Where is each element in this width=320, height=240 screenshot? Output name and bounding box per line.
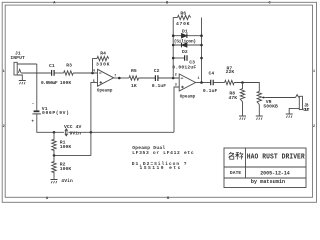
svg-text:500KB: 500KB	[263, 104, 278, 110]
node D2 left	[172, 44, 175, 47]
svg-text:by matsumin: by matsumin	[251, 179, 285, 185]
potentiometer VR (vertical)	[257, 91, 261, 115]
R6 top wire	[173, 17, 177, 19]
svg-text:1: 1	[198, 77, 200, 81]
jack J1 ring contact line	[17, 63, 37, 65]
svg-text:2: 2	[313, 125, 315, 129]
svg-text:1: 1	[313, 70, 315, 74]
ground (R8)	[239, 116, 246, 120]
resistor R5	[129, 76, 139, 80]
feedback loop wires op-amp1	[93, 59, 98, 73]
ground (VR)	[256, 116, 263, 120]
node (inverting input op-amp 2)	[172, 77, 175, 80]
svg-text:22K: 22K	[226, 69, 235, 75]
node C3 right	[200, 57, 203, 60]
op-amp U2 (pins 2,3,1)	[179, 74, 195, 91]
wire jack tip to C1	[21, 72, 51, 74]
node D2 right	[200, 44, 203, 47]
jack J1 sleeve wire to ground	[17, 75, 22, 80]
node (inverting input op-amp 1)	[91, 72, 94, 75]
jack J3 tip contact caret	[296, 95, 299, 98]
jack J3 sleeve wire to ground	[289, 108, 299, 113]
wire C1 to R3	[54, 72, 64, 74]
node (op-amp1 output / feedback)	[118, 77, 121, 80]
resistor R7	[225, 80, 235, 84]
power symbol 9V in	[65, 129, 67, 136]
node (rail / R1 top)	[53, 131, 56, 134]
svg-text:Opeamp: Opeamp	[180, 95, 196, 99]
feedback network right riser	[201, 18, 203, 83]
svg-text:R6: R6	[180, 11, 186, 17]
resistor R3	[64, 71, 74, 75]
node D1 right	[200, 34, 203, 37]
battery V1	[32, 111, 41, 114]
wire battery minus up (drawn with ring line above)	[36, 110, 38, 111]
svg-text:LF353 or LF412 etc: LF353 or LF412 etc	[132, 150, 194, 156]
svg-text:-: -	[32, 101, 35, 106]
node (R1/R2 midpoint)	[53, 154, 56, 157]
svg-text:C1: C1	[49, 63, 55, 69]
svg-text:100K: 100K	[60, 80, 72, 86]
wire R5 to C2	[139, 77, 155, 79]
svg-text:006P(9V): 006P(9V)	[42, 110, 69, 116]
svg-text:D2: D2	[182, 49, 188, 55]
svg-text:0.056uF: 0.056uF	[41, 80, 58, 86]
svg-text:2: 2	[3, 125, 5, 129]
wire op-amp1 output	[114, 77, 129, 79]
op-amp U1 (pins 6,5,7)	[98, 69, 114, 86]
jack J3 body	[299, 96, 302, 109]
svg-text:470K: 470K	[176, 21, 190, 27]
svg-text:OUT: OUT	[303, 107, 309, 113]
wire R3 to op-amp U1 inverting input	[73, 72, 97, 74]
svg-text:47K: 47K	[229, 95, 238, 101]
svg-text:C2: C2	[154, 68, 160, 74]
svg-text:0.1uF: 0.1uF	[152, 83, 167, 89]
node C3 left	[172, 57, 175, 60]
resistor R2 (vertical)	[52, 155, 56, 179]
svg-text:C4: C4	[209, 70, 215, 76]
jack J1 body	[14, 62, 17, 75]
resistor R4	[97, 56, 109, 60]
svg-text:4Vin: 4Vin	[61, 178, 73, 184]
jack J1 tip contact caret	[18, 69, 21, 73]
feedback network left riser	[172, 18, 174, 79]
svg-text:HAO RUST DRIVER: HAO RUST DRIVER	[247, 153, 306, 161]
wire C2 to op-amp2 inverting input	[158, 77, 179, 79]
capacitor C3	[185, 55, 187, 60]
wire C4 to R7	[213, 82, 224, 84]
VR wiper arrow	[262, 96, 266, 98]
svg-text:100K: 100K	[60, 144, 72, 150]
ground (J3)	[286, 114, 293, 118]
svg-text:1SS119 etc: 1SS119 etc	[140, 165, 181, 171]
resistor R1 (vertical)	[52, 132, 56, 155]
svg-text:R3: R3	[66, 63, 72, 69]
resistor R6	[178, 15, 191, 19]
svg-text:100K: 100K	[60, 166, 72, 172]
svg-text:2005-12-14: 2005-12-14	[260, 170, 290, 176]
wire VR wiper to jack J3	[266, 97, 296, 99]
D2 branch wire	[173, 44, 201, 46]
wire jack ring down to battery	[36, 64, 38, 110]
svg-text:D1: D1	[182, 29, 188, 35]
ground (J1 sleeve)	[19, 81, 26, 85]
svg-text:2: 2	[175, 74, 177, 78]
svg-text:0.0012uF: 0.0012uF	[172, 64, 196, 70]
capacitor C4	[211, 80, 214, 86]
svg-text:Opeamp: Opeamp	[97, 89, 113, 93]
wire R7 to VR branch	[234, 83, 259, 92]
D1 branch wire	[173, 35, 201, 37]
node (R7/R8/VR junction)	[241, 81, 244, 84]
diode D1	[182, 33, 187, 38]
svg-text:DATE: DATE	[230, 170, 242, 176]
diode D2	[182, 43, 187, 48]
inner border frame	[5, 5, 312, 197]
svg-text:+: +	[31, 120, 34, 125]
svg-text:6: 6	[93, 70, 95, 74]
node (op-amp2 output)	[200, 81, 203, 84]
node D1 left	[172, 34, 175, 37]
title block frame	[224, 148, 306, 188]
svg-text:INPUT: INPUT	[10, 55, 25, 61]
svg-text:0.1uF: 0.1uF	[203, 88, 218, 94]
svg-text:330K: 330K	[96, 62, 110, 68]
ground (R2)	[51, 180, 58, 184]
svg-text:1K: 1K	[131, 83, 137, 89]
op-amp2 non-inverting stub to bias rail	[174, 87, 179, 132]
svg-text:VCC 4V: VCC 4V	[64, 124, 81, 130]
node (rail / bias riser)	[90, 131, 93, 134]
bias riser op-amp1 + divider tap	[54, 82, 98, 155]
resistor R8 (vertical)	[240, 83, 244, 117]
capacitor C1	[52, 70, 55, 76]
wire op-amp2 output to C4	[196, 82, 211, 84]
title 名称 (kanji)	[228, 152, 243, 159]
bias rail wire to op-amp2	[68, 131, 174, 133]
svg-text:9Vin: 9Vin	[70, 130, 82, 136]
svg-text:R4: R4	[100, 51, 106, 57]
capacitor C2	[155, 75, 158, 81]
svg-text:R5: R5	[131, 68, 137, 74]
wire battery plus down to rail	[37, 114, 64, 132]
C3 branch wire	[173, 57, 184, 59]
svg-text:1: 1	[3, 70, 5, 74]
